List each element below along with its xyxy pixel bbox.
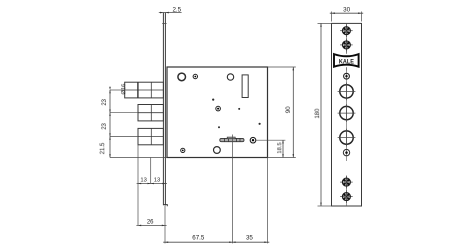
- cylinder centre line (vertical): [231, 135, 233, 244]
- svg-text:26: 26: [147, 219, 154, 225]
- faceplate (side view, thin plate): [162, 12, 164, 205]
- decorative screw S5: [340, 176, 353, 189]
- body top extension line: [268, 66, 296, 68]
- svg-text:30: 30: [343, 7, 351, 14]
- faceplate front outline: [332, 23, 362, 206]
- dimension 13 / 13: [137, 183, 167, 185]
- centre screw: [216, 106, 221, 111]
- svg-text:21.5: 21.5: [100, 142, 106, 154]
- dimension 30 (plate width): [331, 12, 333, 22]
- extension line below faceplate: [164, 206, 166, 244]
- arrow ticks: [109, 87, 111, 93]
- svg-text:35: 35: [246, 234, 253, 241]
- hole H1 (top knob hole): [340, 85, 353, 98]
- dimension 2.5 (plate thickness): [159, 12, 182, 14]
- extension to bolt B2 centre: [110, 112, 138, 114]
- extension line below bolt divider: [150, 158, 152, 184]
- body hole: top-right ring: [227, 74, 233, 80]
- body bottom extension line (left): [110, 157, 167, 159]
- deadbolt B2 (middle): [138, 105, 163, 121]
- hole H2 (middle hole): [340, 106, 353, 119]
- rivet dot 3: [218, 126, 220, 128]
- extension to bolt B3 centre: [110, 136, 138, 138]
- extension line below bolt B3 left edge: [137, 145, 139, 226]
- screw S4 (small with dot): [343, 149, 349, 155]
- decorative screw S2: [340, 39, 353, 52]
- rivet dot 1: [212, 99, 214, 101]
- svg-text:2.5: 2.5: [172, 7, 181, 14]
- dimension 90 (body height): [292, 67, 294, 158]
- left dimension line (23 / 23 / 21.5): [109, 90, 111, 158]
- svg-text:90: 90: [285, 106, 292, 113]
- faceplate bottom end step: [163, 205, 167, 207]
- decorative screw S1: [340, 24, 353, 37]
- bottom ring hole: [214, 147, 221, 154]
- KALE logo frame: [334, 54, 359, 67]
- svg-text:23: 23: [102, 98, 108, 105]
- dimension 180 (plate height): [318, 22, 332, 24]
- deadbolt B1 (top, extended): [125, 82, 164, 98]
- svg-text:Ø16: Ø16: [121, 84, 127, 95]
- cylinder fixing screw: [250, 137, 256, 143]
- plate centre line: [346, 23, 348, 51]
- extension line below body right edge: [267, 158, 269, 244]
- bottom dimension line (67.5 / 35): [163, 241, 269, 243]
- rivet dot 2: [238, 108, 240, 110]
- hole H3 (cylinder hole): [340, 131, 353, 144]
- body screw top-left: [193, 74, 197, 78]
- rivet dot 4: [259, 123, 261, 125]
- extension to bolt B1 centre: [110, 89, 125, 91]
- bottom-left screw: [181, 148, 185, 152]
- svg-text:23: 23: [102, 122, 108, 129]
- dimension 26: [136, 224, 166, 226]
- body bottom extension line (right): [268, 157, 296, 159]
- dimension 18.5: [282, 140, 284, 157]
- faceplate top edge tick: [162, 22, 166, 24]
- deadbolt B3 (bottom): [138, 128, 163, 144]
- body hole: top-left ring: [178, 73, 186, 81]
- svg-text:180: 180: [315, 108, 321, 119]
- svg-text:18.5: 18.5: [277, 142, 283, 153]
- svg-text:13: 13: [140, 178, 146, 184]
- KALE logo centre ticks: [346, 51, 348, 54]
- slot rectangle: [242, 75, 248, 98]
- svg-text:67.5: 67.5: [192, 234, 205, 241]
- lock body outline: [167, 67, 268, 158]
- screw S3 (small with dot): [344, 73, 350, 79]
- key cylinder (side profile): [220, 138, 244, 141]
- extension line from cylinder screw to 18.5 dim: [256, 139, 285, 141]
- decorative screw S6: [340, 190, 353, 203]
- svg-text:KALE: KALE: [339, 59, 354, 66]
- svg-text:13: 13: [154, 178, 160, 184]
